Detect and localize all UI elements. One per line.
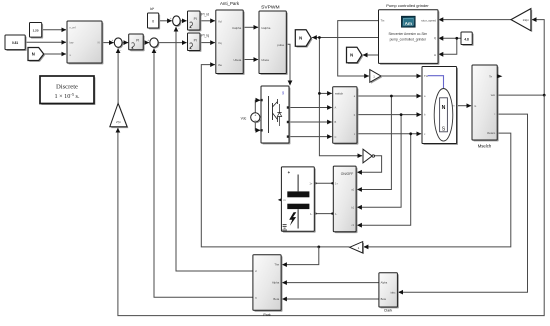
svg-text:1 × 10-5 s.: 1 × 10-5 s. — [55, 92, 80, 101]
svg-text:Vq: Vq — [218, 41, 222, 45]
svg-text:m: m — [283, 199, 285, 202]
svg-text:PI_id: PI_id — [201, 13, 209, 17]
svg-text:Discrete: Discrete — [56, 84, 78, 91]
svg-text:S: S — [442, 127, 446, 133]
svg-text:ON/OFF: ON/OFF — [341, 172, 353, 176]
svg-text:N: N — [299, 36, 302, 41]
svg-text:Anti_Park: Anti_Park — [220, 1, 240, 6]
svg-text:Ubeta: Ubeta — [233, 58, 241, 62]
svg-text:Park: Park — [263, 313, 271, 317]
svg-text:0: 0 — [152, 20, 154, 24]
svg-text:The: The — [274, 263, 279, 267]
svg-text:Beta: Beta — [273, 297, 279, 301]
svg-text:+: + — [254, 114, 256, 118]
svg-text:Vdc: Vdc — [241, 116, 247, 120]
svg-text:Mselch: Mselch — [478, 144, 492, 149]
svg-text:1-: 1- — [335, 213, 337, 216]
svg-text:–: – — [254, 118, 256, 122]
svg-text:Ualpha: Ualpha — [232, 26, 242, 30]
svg-text:Pump controlled grinder: Pump controlled grinder — [386, 3, 429, 8]
svg-text:N: N — [350, 53, 353, 58]
svg-text:SVPWM: SVPWM — [261, 5, 279, 11]
svg-text:Vd: Vd — [218, 19, 222, 23]
svg-text:PI: PI — [136, 39, 139, 43]
svg-text:Tin: Tin — [381, 19, 385, 23]
svg-text:PI_iq: PI_iq — [201, 33, 209, 37]
svg-text:Clark: Clark — [384, 309, 393, 313]
svg-text:Ubeta: Ubeta — [261, 58, 269, 62]
svg-text:m: m — [452, 105, 454, 108]
svg-text:wm: wm — [491, 93, 496, 97]
svg-text:Simcenter Amesim co-Sim: Simcenter Amesim co-Sim — [388, 32, 427, 36]
svg-text:H: H — [434, 53, 436, 57]
svg-text:pump_controlled_grinder: pump_controlled_grinder — [390, 38, 427, 42]
svg-text:rotor_speed: rotor_speed — [421, 19, 436, 23]
svg-text:PI: PI — [194, 17, 197, 21]
svg-text:Ualpha: Ualpha — [261, 26, 271, 30]
svg-text:pulse: pulse — [277, 43, 284, 47]
svg-text:switch: switch — [335, 91, 343, 95]
svg-text:N: N — [32, 52, 35, 57]
svg-text:N: N — [442, 105, 446, 111]
svg-text:Id*: Id* — [150, 7, 155, 11]
svg-text:the: the — [218, 63, 222, 67]
svg-text:0.81: 0.81 — [12, 41, 18, 45]
svg-text:Am: Am — [405, 21, 412, 26]
svg-text:1.25: 1.25 — [33, 29, 39, 33]
svg-text:4.8: 4.8 — [464, 37, 469, 41]
svg-text:Alpha: Alpha — [272, 281, 280, 285]
svg-text:PI: PI — [194, 38, 197, 42]
svg-text:g: g — [282, 91, 284, 95]
